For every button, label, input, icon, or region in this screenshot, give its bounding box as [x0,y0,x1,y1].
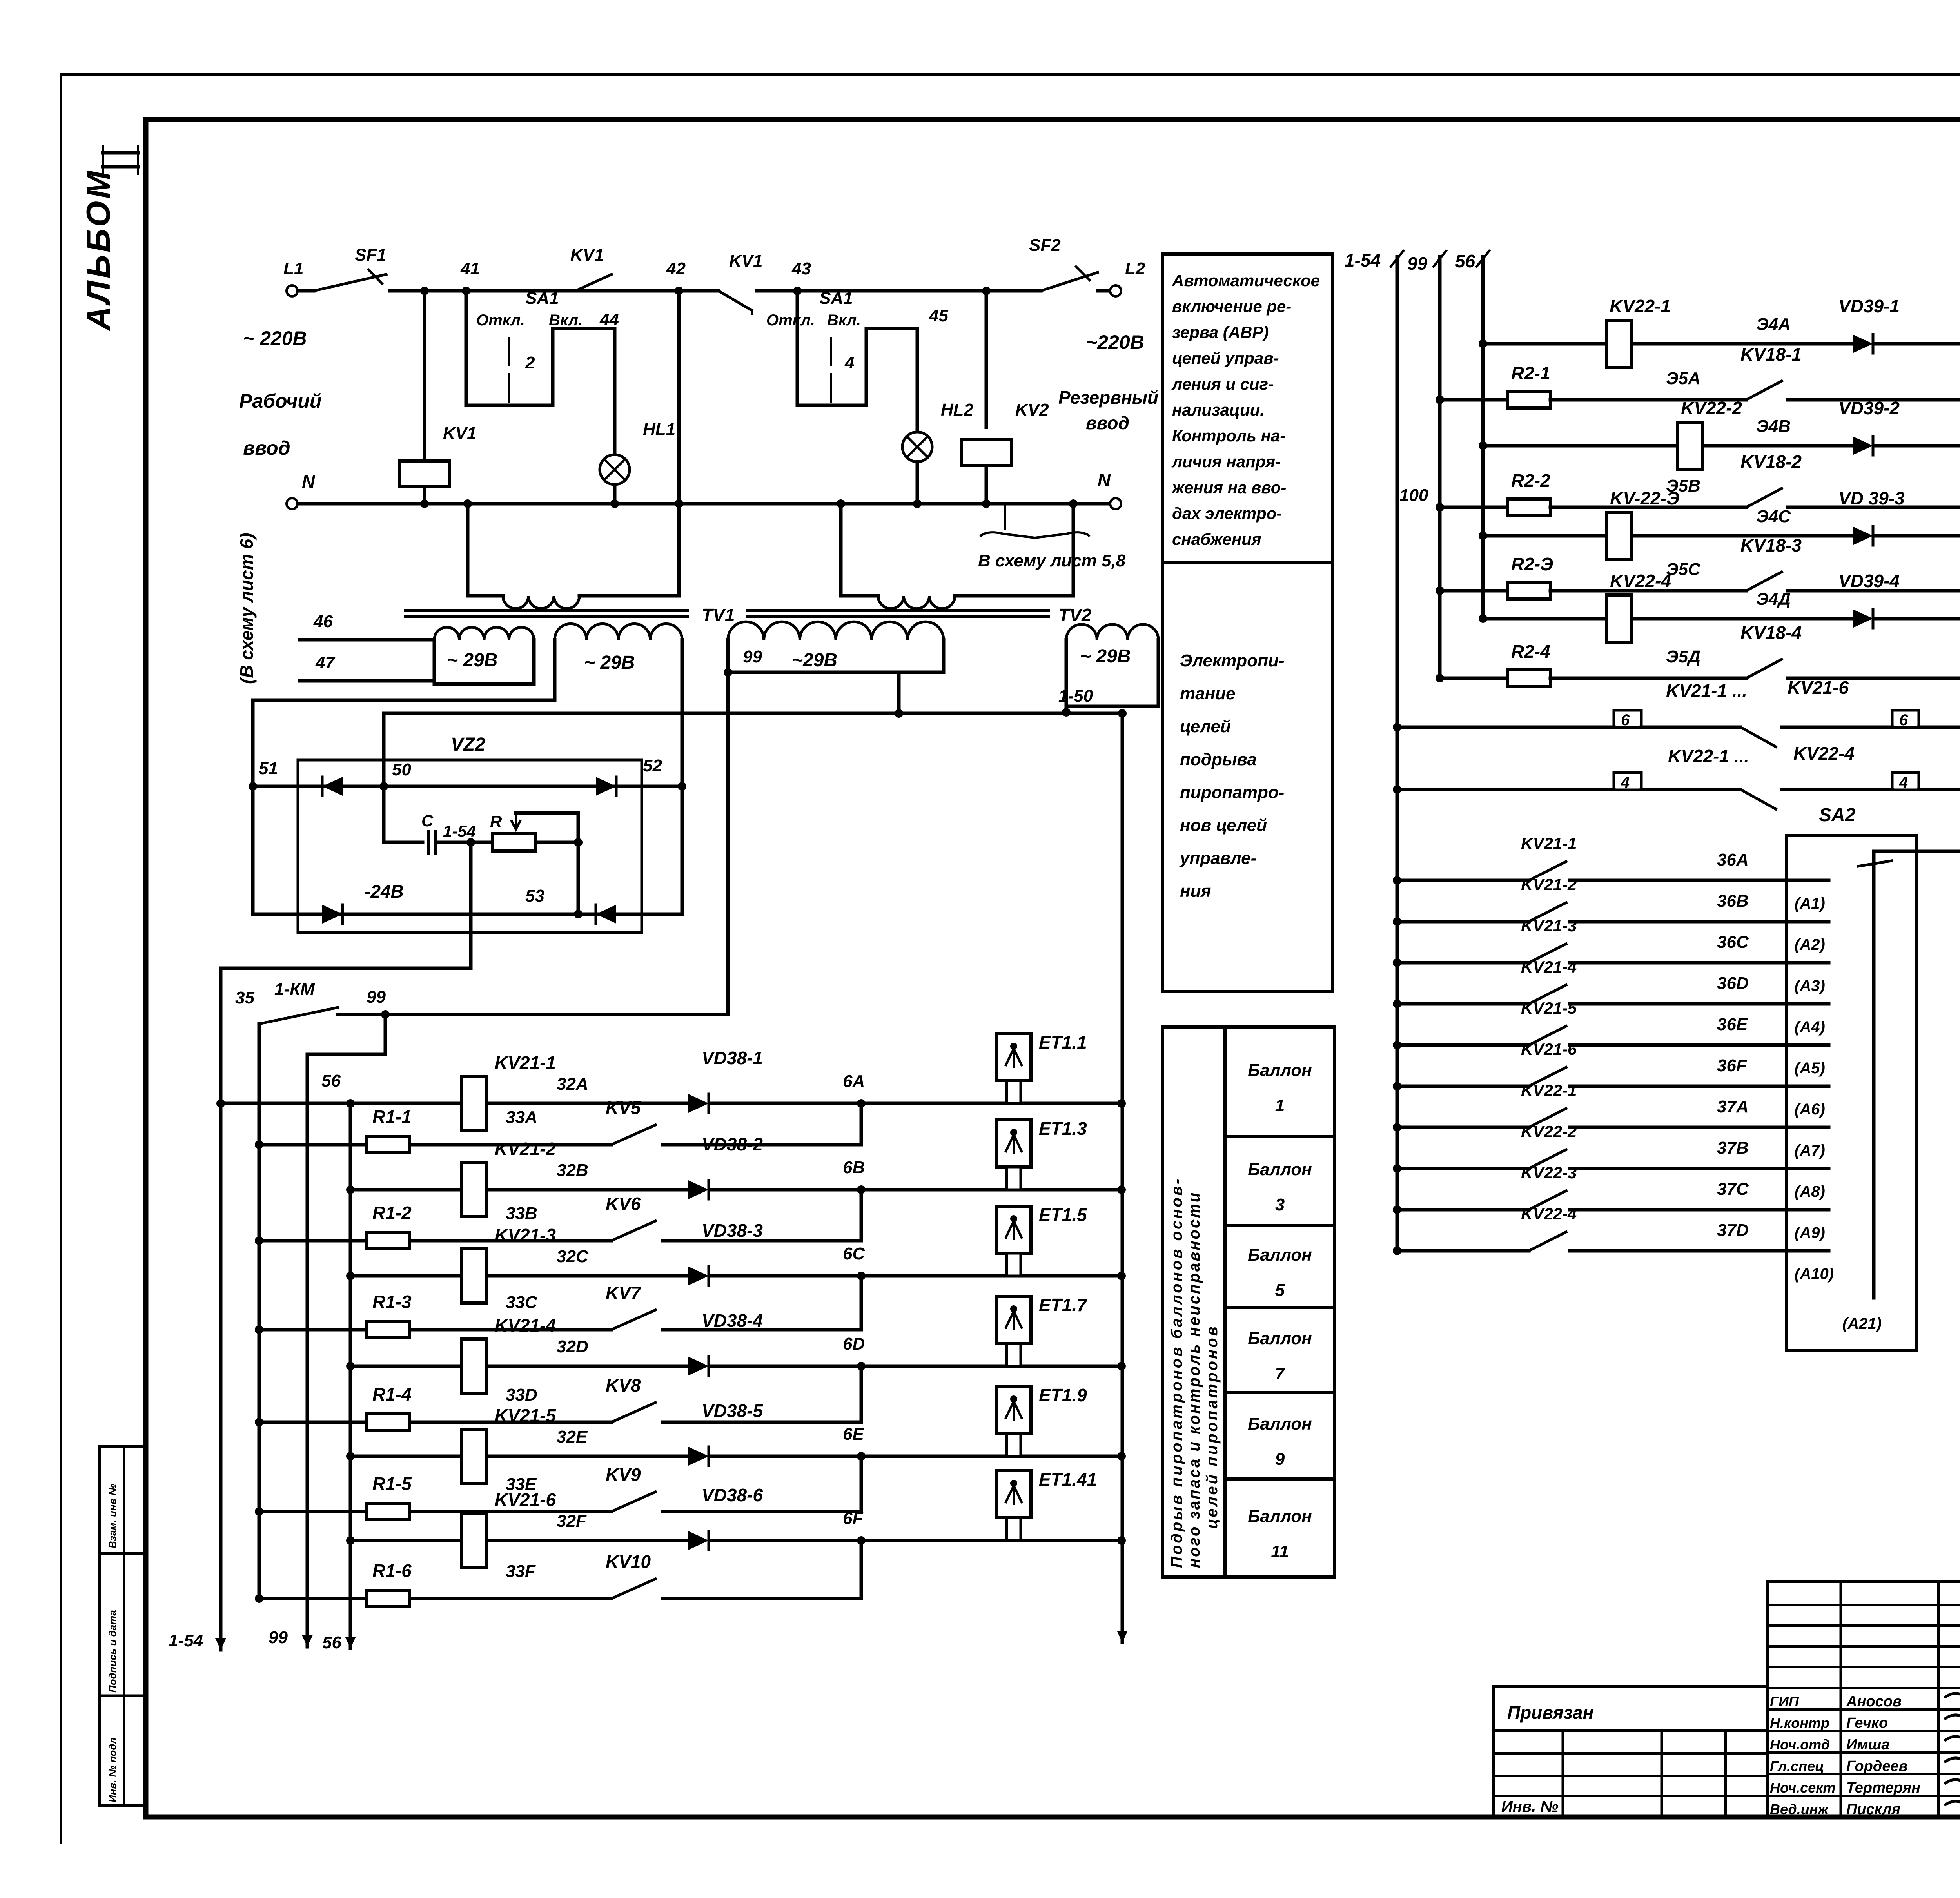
svg-text:SA1: SA1 [525,289,559,308]
svg-text:KV5: KV5 [606,1098,641,1118]
svg-text:Контроль на-: Контроль на- [1172,426,1285,445]
svg-text:(А21): (А21) [1842,1315,1882,1332]
svg-text:KV21-2: KV21-2 [495,1139,556,1159]
svg-text:SA1: SA1 [819,289,853,308]
svg-text:99: 99 [1407,253,1428,274]
node 42 [675,287,683,295]
svg-text:N: N [1098,470,1111,490]
svg-text:99: 99 [269,1628,288,1647]
svg-text:Э4В: Э4В [1756,417,1791,436]
svg-text:36В: 36В [1717,891,1749,911]
svg-text:SA2: SA2 [1819,805,1856,826]
svg-text:Ноч.сект: Ноч.сект [1770,1780,1835,1796]
terminal L1 [287,285,298,296]
diode VD 39-3 [1853,526,1873,545]
tap from TV2 sec1 [897,672,901,713]
node 6С [711,1274,1122,1278]
contact KV8 [612,1403,655,1422]
svg-text:VD39-2: VD39-2 [1838,398,1900,418]
svg-text:KV21-3: KV21-3 [495,1225,556,1245]
svg-text:6С: 6С [843,1244,865,1263]
svg-text:3: 3 [1275,1195,1285,1214]
svg-text:R1-6: R1-6 [372,1560,412,1581]
diode bridge top row [253,785,682,788]
svg-text:Н.контр: Н.контр [1770,1715,1829,1731]
sheet outer border top edge [61,73,1960,76]
svg-text:56: 56 [321,1071,341,1091]
svg-text:33А: 33А [506,1108,537,1127]
svg-text:R1-5: R1-5 [372,1473,412,1494]
svg-text:ET1.9: ET1.9 [1039,1385,1087,1405]
svg-text:41: 41 [460,259,480,278]
svg-text:56: 56 [322,1633,341,1652]
TV1 secondary winding 2 [555,624,682,640]
svg-text:36А: 36А [1717,850,1749,869]
svg-text:37А: 37А [1717,1097,1749,1116]
lamp HL1 [600,455,630,484]
svg-text:ния: ния [1180,882,1211,901]
SA2 pin (А5) [1786,1043,1829,1047]
svg-text:~29В: ~29В [792,650,837,671]
svg-text:2: 2 [525,353,535,372]
svg-text:Гл.спец: Гл.спец [1770,1758,1824,1774]
svg-text:KV21-1: KV21-1 [1521,834,1577,853]
neutral terminal N left [287,498,298,509]
SA2 pin (А9) [1786,1208,1829,1212]
svg-text:KV22-1: KV22-1 [1521,1081,1577,1100]
relay coil KV21-4 [461,1339,486,1393]
diode VD38-5 [688,1447,709,1466]
resistor R1-6 [259,1597,367,1600]
svg-text:цепей управ-: цепей управ- [1172,349,1279,367]
svg-text:Вед.инж: Вед.инж [1770,1801,1829,1817]
svg-text:6: 6 [1899,711,1908,729]
svg-text:52: 52 [643,756,662,775]
svg-text:Взам. инв №: Взам. инв № [107,1484,118,1548]
svg-text:подрыва: подрыва [1180,750,1257,769]
wire Э4Д [1632,617,1853,621]
relay coil KV22-4 [1607,595,1632,642]
transformer TV2 core [748,609,1048,612]
svg-text:L1: L1 [283,259,303,278]
node 6Е [711,1455,1122,1458]
wire Э5В [1550,506,1746,509]
svg-text:37D: 37D [1717,1221,1749,1240]
svg-text:36D: 36D [1717,974,1749,993]
svg-text:Э4А: Э4А [1756,315,1791,334]
svg-text:5: 5 [1275,1281,1285,1300]
svg-text:1-КМ: 1-КМ [274,980,315,999]
rectifier VZ2 box [298,760,642,933]
svg-text:KV8: KV8 [606,1375,641,1395]
svg-text:(А5): (А5) [1795,1060,1825,1077]
svg-text:ления и сиг-: ления и сиг- [1171,375,1274,393]
svg-text:Аносов: Аносов [1846,1693,1902,1710]
svg-text:36F: 36F [1717,1056,1747,1075]
diode VD39-1 [1853,334,1873,353]
relay coil KV22-1 [1606,320,1632,367]
svg-text:Гордеев: Гордеев [1846,1758,1908,1775]
svg-text:личия напря-: личия напря- [1171,452,1281,471]
svg-text:ET1.5: ET1.5 [1039,1205,1087,1225]
resistor R1-4 [259,1421,367,1424]
sheet outer border left edge [60,74,62,1843]
svg-text:Вкл.: Вкл. [549,312,583,329]
resistor R2-1 [1440,398,1507,402]
wire direction 1 feed [1483,342,1606,346]
svg-text:KV1: KV1 [443,424,477,443]
contact KV22-2 row [1397,1167,1529,1170]
svg-text:Пискля: Пискля [1846,1801,1900,1818]
wire Э5С [1550,589,1746,593]
svg-text:(А1): (А1) [1795,895,1825,912]
relay coil KV2 [982,287,991,295]
svg-text:ET1.7: ET1.7 [1039,1295,1088,1315]
svg-text:99: 99 [367,987,386,1007]
svg-text:KV6: KV6 [606,1194,641,1214]
svg-text:снабжения: снабжения [1172,530,1261,548]
svg-text:6: 6 [1621,711,1630,729]
relay coil KV21-2 [461,1163,486,1217]
SA2 pin (А1) [1786,879,1829,882]
diode VD39-4 [1853,609,1873,628]
svg-text:KV9: KV9 [606,1464,641,1485]
TV2 secondary winding 1 [728,622,944,640]
svg-text:Электропи-: Электропи- [1180,651,1284,670]
svg-text:36Е: 36Е [1717,1015,1748,1034]
resistor R1-3 [259,1328,367,1332]
wire 33В [410,1239,612,1243]
svg-text:37С: 37С [1717,1179,1749,1199]
svg-text:(А7): (А7) [1795,1142,1825,1159]
svg-text:45: 45 [929,306,948,325]
node 6D [711,1365,1122,1368]
contact KV22-4 row [1397,1249,1529,1253]
svg-text:(А10): (А10) [1795,1265,1834,1283]
squib ET1.9 [996,1386,1031,1433]
svg-text:1: 1 [1275,1096,1285,1115]
wire 32В [486,1188,688,1192]
svg-text:ного запаса и контроль неиспра: ного запаса и контроль неисправности [1186,1191,1203,1568]
svg-text:В схему лист 5,8: В схему лист 5,8 [978,551,1126,570]
wire 32F [486,1539,688,1542]
svg-text:1-54: 1-54 [169,1631,203,1650]
svg-text:R1-2: R1-2 [372,1203,412,1223]
diode VD38-1 [688,1094,709,1113]
svg-text:Баллон: Баллон [1248,1061,1312,1080]
svg-text:KV22-2: KV22-2 [1681,398,1742,418]
contact KV21-5 row [1397,1043,1529,1047]
svg-text:KV22-3: KV22-3 [1521,1163,1577,1182]
resistor R2-2 [1440,506,1507,509]
svg-text:7: 7 [1275,1364,1286,1383]
svg-text:32А: 32А [557,1074,588,1094]
wire neutral bus [298,502,1110,506]
svg-text:KV18-2: KV18-2 [1740,452,1802,472]
diode VD38-4 [688,1357,709,1375]
svg-text:~ 29В: ~ 29В [447,650,497,671]
svg-text:SF1: SF1 [355,245,387,265]
contact KV21-3 row [1397,961,1529,965]
svg-text:R1-3: R1-3 [372,1292,412,1312]
relay coil KV-22-Э [1607,512,1632,559]
svg-text:33F: 33F [506,1562,536,1581]
svg-text:VD38-4: VD38-4 [702,1310,763,1331]
wire direction 3 feed [1483,534,1607,538]
neutral terminal N right [1110,498,1121,509]
svg-text:Привязан: Привязан [1507,1702,1593,1723]
svg-text:~ 29В: ~ 29В [1080,646,1131,667]
SA2 pin (А6) [1786,1085,1829,1088]
svg-text:Откл.: Откл. [766,312,815,329]
svg-text:Подпись и дата: Подпись и дата [107,1610,118,1693]
svg-text:32D: 32D [557,1337,588,1356]
squib ET1.5 [996,1206,1031,1253]
diode VD38-2 [688,1180,709,1199]
wire direction 2 feed [1483,444,1678,448]
svg-text:Э4Д: Э4Д [1756,590,1791,609]
wire 44 to lamp HL1 [551,328,555,337]
svg-text:36С: 36С [1717,933,1749,952]
svg-text:R2-2: R2-2 [1511,470,1550,491]
svg-text:VD38-6: VD38-6 [702,1485,763,1505]
svg-text:(А2): (А2) [1795,936,1825,953]
svg-text:6D: 6D [843,1334,865,1354]
SA2 pin (А2) [1786,920,1829,924]
svg-text:дах электро-: дах электро- [1172,504,1282,523]
svg-text:управле-: управле- [1179,849,1256,868]
svg-text:Резервный: Резервный [1058,387,1158,408]
contact KV1 top [575,274,612,291]
svg-text:6А: 6А [843,1072,865,1091]
relay coil KV21-6 [461,1513,486,1568]
svg-text:KV7: KV7 [606,1283,642,1303]
svg-text:ET1.1: ET1.1 [1039,1032,1087,1052]
svg-text:VZ2: VZ2 [451,734,485,755]
svg-text:Имша: Имша [1846,1737,1889,1753]
svg-text:VD38-5: VD38-5 [702,1401,763,1421]
svg-text:TV1: TV1 [702,605,735,625]
svg-text:4: 4 [1621,774,1630,791]
svg-text:4: 4 [844,353,854,372]
contact KV10 [612,1579,655,1599]
svg-text:R2-1: R2-1 [1511,363,1550,383]
svg-text:KV2: KV2 [1015,400,1049,419]
resistor R2-Э [1440,589,1507,593]
contact KV7 [612,1310,655,1330]
text box AVR description [1162,254,1333,991]
svg-text:KV21-3: KV21-3 [1521,916,1577,935]
svg-text:L2: L2 [1125,259,1145,278]
contact KV5 [612,1125,655,1145]
svg-text:VD38-3: VD38-3 [702,1220,763,1241]
SA2 pin (А10) [1786,1249,1829,1253]
svg-text:ГИП: ГИП [1770,1693,1799,1709]
svg-text:Рабочий: Рабочий [239,390,321,412]
svg-text:51: 51 [259,759,278,778]
wire row 6D feed [350,1365,461,1368]
wire Э4А [1632,342,1853,346]
relay coil KV21-5 [461,1429,486,1483]
title block signature table [1768,1581,1960,1817]
svg-text:SF2: SF2 [1029,236,1061,255]
node 7А [1876,342,1960,346]
svg-text:Автоматическое: Автоматическое [1172,271,1320,290]
contact KV22-1 row [1397,1126,1529,1129]
balloon table [1162,1027,1335,1577]
svg-text:-24В: -24В [365,881,404,902]
svg-text:(А3): (А3) [1795,977,1825,994]
node 7С [1876,534,1960,538]
contact KV1 second [683,289,719,293]
svg-text:44: 44 [599,310,619,329]
svg-text:~220В: ~220В [1086,331,1144,353]
SA2 pin (А8) [1786,1167,1829,1170]
wire row 6Е feed [350,1455,461,1458]
node 6В [711,1188,1122,1192]
svg-text:KV21-6: KV21-6 [1521,1040,1577,1058]
svg-text:пиропатро-: пиропатро- [1180,783,1284,802]
TV1 primary winding [466,504,470,596]
wire 45 to lamp HL2 [865,328,868,337]
title block attachment table [1493,1687,1768,1817]
svg-text:R2-Э: R2-Э [1511,554,1553,574]
relay coil KV1 [423,291,426,461]
contact KV21-6 row [1397,1085,1529,1088]
relay coil KV21-1 [461,1076,486,1130]
svg-text:100: 100 [1399,486,1428,505]
svg-text:KV22-4: KV22-4 [1793,743,1855,764]
wire row 6С feed [350,1274,461,1278]
wire SF1 to node 42 [390,289,683,293]
wire 32С [486,1274,688,1278]
squib ET1.7 [996,1296,1031,1343]
svg-text:50: 50 [392,760,411,779]
left margin stamp boxes [100,1446,146,1553]
diode VD38-3 [688,1267,709,1285]
svg-text:32F: 32F [557,1512,587,1531]
lamp HL2 [902,432,932,462]
contact KV18-4 [1746,659,1782,678]
svg-text:Э5Д: Э5Д [1666,647,1700,666]
svg-text:1-50: 1-50 [1058,686,1093,706]
svg-text:ET1.3: ET1.3 [1039,1118,1087,1139]
svg-text:ввод: ввод [243,437,290,459]
filter output 1-54 tap [466,838,475,847]
contact KV6 [612,1221,655,1241]
junction dots on N [420,499,429,508]
SA2 pin (А4) [1786,1002,1829,1006]
svg-text:тание: тание [1180,684,1236,703]
svg-text:(В схему лист 6): (В схему лист 6) [236,533,257,684]
contact KV21-1 row [1397,879,1529,882]
node 41 [420,287,429,295]
svg-text:53: 53 [525,886,544,905]
svg-text:42: 42 [666,259,686,278]
svg-text:(А6): (А6) [1795,1101,1825,1118]
wire row 6В feed [350,1188,461,1192]
node 7В [1876,444,1960,448]
svg-text:VD38-1: VD38-1 [702,1048,763,1068]
breaker SF1 [314,274,386,291]
SA2 pin (А3) [1786,961,1829,965]
svg-text:33В: 33В [506,1204,537,1223]
svg-text:Э5С: Э5С [1666,560,1701,579]
svg-text:АЛЬБОМ: АЛЬБОМ [80,169,117,331]
svg-text:1-54: 1-54 [443,822,476,840]
svg-text:Баллон: Баллон [1248,1414,1312,1433]
breaker SF2 [1041,272,1098,291]
svg-text:6В: 6В [843,1158,865,1177]
rail 56 left [349,1103,352,1648]
svg-text:KV18-4: KV18-4 [1740,622,1802,643]
svg-text:Баллон: Баллон [1248,1160,1312,1179]
svg-text:32Е: 32Е [557,1427,588,1446]
wire node 41 to TV1 primary [423,501,426,504]
svg-text:KV18-3: KV18-3 [1740,535,1802,555]
svg-text:включение ре-: включение ре- [1172,297,1291,316]
TV2 primary winding [839,504,843,596]
svg-text:R2-4: R2-4 [1511,641,1550,662]
svg-text:1-54: 1-54 [1345,250,1381,270]
svg-text:R1-1: R1-1 [372,1107,412,1127]
contact KV9 [612,1492,655,1512]
svg-text:KV21-1: KV21-1 [495,1052,556,1073]
svg-text:KV22-4: KV22-4 [1521,1205,1577,1223]
svg-text:HL1: HL1 [643,420,675,439]
svg-text:Вкл.: Вкл. [827,312,861,329]
wire 39 [1874,850,1960,853]
wire node 50 riser [382,713,386,842]
svg-text:HL2: HL2 [941,400,974,419]
rail 1-54 left [219,968,223,1650]
svg-text:11: 11 [1271,1542,1289,1561]
svg-text:Э4С: Э4С [1756,507,1791,526]
svg-text:R: R [490,812,502,831]
svg-text:KV21-5: KV21-5 [495,1405,556,1426]
svg-text:KV-22-Э: KV-22-Э [1610,488,1679,508]
terminal L2 [1110,285,1121,296]
svg-text:KV22-2: KV22-2 [1521,1122,1577,1141]
svg-text:ввод: ввод [1086,413,1129,433]
contact KV22-3 row [1397,1208,1529,1212]
svg-text:Гечко: Гечко [1846,1715,1888,1731]
svg-text:KV21-1 ...: KV21-1 ... [1666,680,1747,701]
svg-text:KV21-4: KV21-4 [495,1315,556,1335]
relay coil KV22-2 [1678,422,1703,469]
wire 33D [410,1421,612,1424]
svg-text:KV1: KV1 [570,245,604,265]
wire row 6F feed [350,1539,461,1542]
link to sheets 5,8 brace [1004,504,1006,529]
relay coil KV21-3 [461,1249,486,1303]
contact KV18-1 [1746,381,1782,400]
vertical bus to ET1 chain [1121,713,1124,1642]
svg-text:зерва (АВР): зерва (АВР) [1172,323,1269,341]
svg-text:32В: 32В [557,1161,588,1180]
svg-text:VD39-1: VD39-1 [1838,296,1900,316]
svg-text:~ 29В: ~ 29В [584,652,635,673]
resistor R1-2 [259,1239,367,1243]
wire 32Е [486,1455,688,1458]
svg-text:TV2: TV2 [1058,605,1092,625]
svg-text:Тертерян: Тертерян [1846,1780,1920,1796]
diode bridge bottom row [253,913,682,916]
resistor R1-5 [259,1510,367,1513]
svg-text:46: 46 [313,612,333,631]
svg-text:(А8): (А8) [1795,1183,1825,1200]
svg-text:Инв. № подл: Инв. № подл [107,1737,118,1802]
